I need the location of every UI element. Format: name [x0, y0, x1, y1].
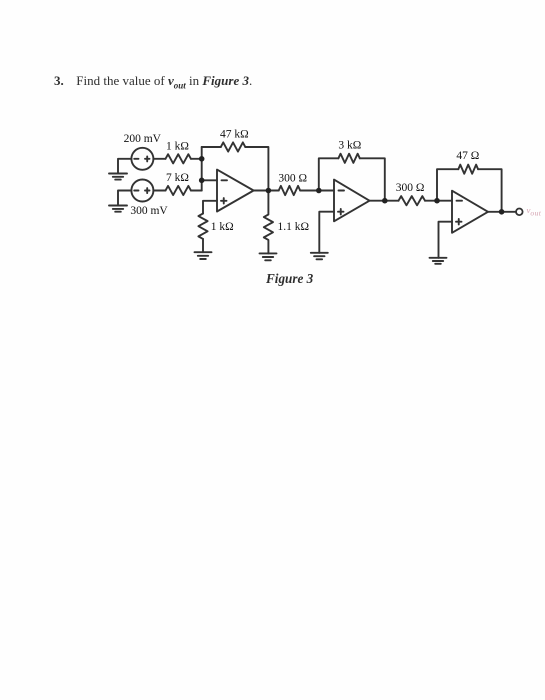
wire R3 to output node	[245, 147, 268, 191]
wire non-inverting input of U1	[203, 201, 217, 214]
labels	[124, 129, 542, 234]
wire VS2 right	[153, 190, 165, 192]
wire R9 to U3 output node	[478, 169, 502, 212]
svg-text:47 kΩ: 47 kΩ	[220, 129, 249, 141]
op-amp U1	[217, 170, 254, 212]
resistor R2 7 kOhm	[166, 186, 191, 195]
wire feedback U2 with 3k	[319, 158, 339, 190]
ground G4	[260, 253, 277, 260]
node D	[434, 198, 440, 204]
ground G1	[109, 174, 127, 180]
junction dots	[199, 156, 505, 215]
wire non-inverting input of U2 to ground	[319, 212, 334, 253]
wire VS1 right	[153, 158, 165, 160]
svg-text:1 kΩ: 1 kΩ	[211, 221, 234, 233]
caption Figure 3	[266, 271, 313, 287]
resistor R7 3 kOhm	[338, 154, 359, 163]
node B	[316, 188, 322, 194]
node U1 output	[266, 188, 272, 194]
wire VS2 left to ground	[118, 191, 131, 206]
wire U1 output	[254, 190, 279, 192]
node U3 output	[499, 209, 505, 215]
wire R1 to summing node	[191, 158, 202, 160]
wire feedback top with 47k	[202, 146, 221, 148]
resistor R8 300 Ohm	[399, 196, 425, 205]
wire VS1 left to ground	[118, 159, 131, 174]
svg-text:200 mV: 200 mV	[124, 133, 162, 145]
VS2 polarity marks	[134, 188, 149, 193]
heading text	[54, 73, 252, 91]
svg-text:1 kΩ: 1 kΩ	[166, 141, 189, 153]
node C (U2 output)	[382, 198, 388, 204]
svg-text:3 kΩ: 3 kΩ	[338, 140, 361, 152]
resistor R3 47 kOhm	[221, 142, 245, 151]
resistor R5 300 Ohm	[279, 186, 300, 195]
wire R4 to ground	[202, 239, 204, 252]
wire feedback U3 with 47 Ohm	[437, 169, 458, 201]
svg-text:47 Ω: 47 Ω	[456, 150, 479, 162]
svg-text:300 mV: 300 mV	[130, 205, 168, 217]
resistor R1 1 kOhm	[166, 154, 191, 163]
svg-text:1.1 kΩ: 1.1 kΩ	[278, 221, 310, 233]
output terminal	[516, 209, 523, 216]
ground G6	[430, 258, 447, 264]
resistor R9 47 Ohm	[458, 165, 478, 174]
wire summing vertical line	[201, 147, 203, 191]
svg-text:300 Ω: 300 Ω	[396, 182, 425, 194]
ground G5	[311, 253, 328, 259]
wire U2 output	[370, 200, 399, 202]
svg-text:vout: vout	[527, 205, 542, 218]
VS1 polarity marks	[134, 156, 149, 161]
wire non-inverting input of U3 to ground	[439, 222, 453, 258]
svg-text:7 kΩ: 7 kΩ	[166, 172, 189, 184]
op-amp U3	[452, 191, 488, 233]
voltage source VS2 300 mV	[131, 180, 153, 202]
wire R5 to node B	[300, 190, 334, 192]
wire R7 to U2 output node	[360, 158, 385, 200]
resistor R6 1.1 kOhm (vertical)	[264, 191, 273, 254]
wire R8 to node D	[425, 200, 452, 202]
svg-text:300 Ω: 300 Ω	[278, 172, 307, 184]
voltage source VS1 200 mV	[131, 148, 153, 170]
node A2 (inverting input junction)	[199, 178, 205, 184]
ground G3	[195, 252, 212, 259]
node A1 (R1 junction)	[199, 156, 205, 162]
wire inverting input	[202, 179, 217, 181]
resistor R4 1 kOhm (vertical)	[198, 214, 207, 239]
wire U3 output to terminal	[488, 211, 516, 213]
op-amp U2	[334, 180, 370, 222]
wire R2 to summing node	[191, 190, 202, 192]
ground G2	[109, 206, 127, 212]
